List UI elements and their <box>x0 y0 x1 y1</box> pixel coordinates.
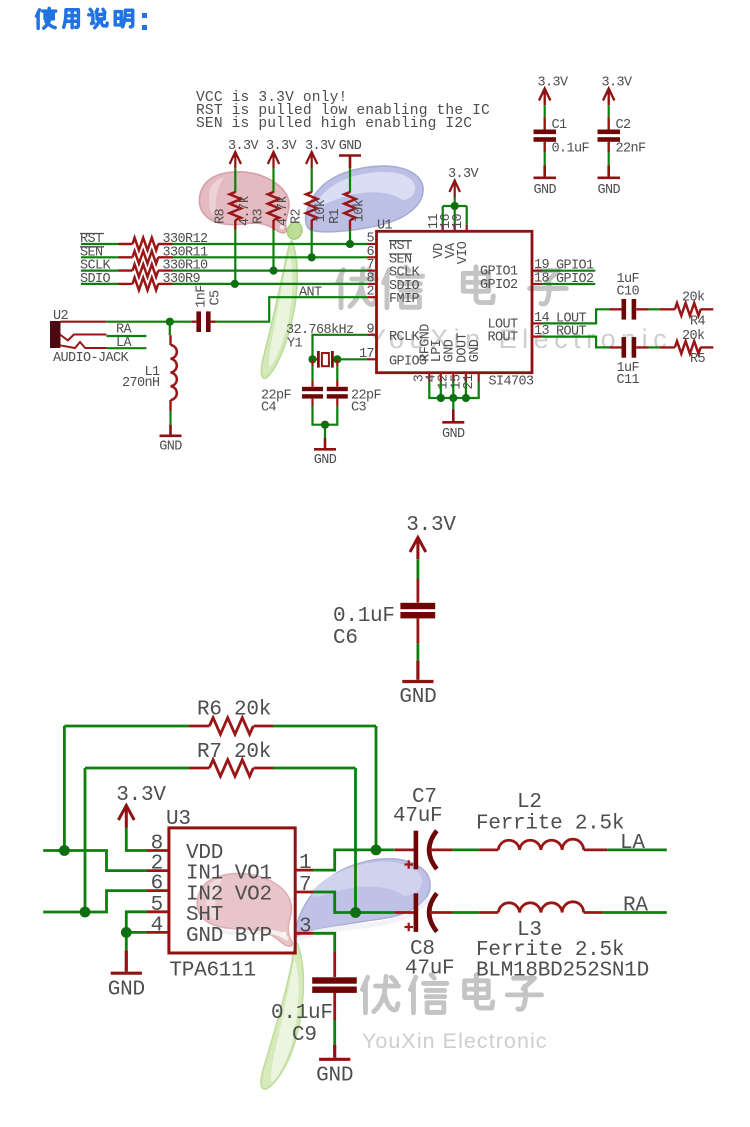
wire 3.3V to VDD <box>126 828 147 851</box>
svg-text:GPIO2: GPIO2 <box>480 278 518 293</box>
svg-text:20k: 20k <box>682 329 705 344</box>
watermark logo top: green sprout <box>261 222 302 378</box>
watermark logo bottom: blue petal <box>295 859 430 941</box>
pin 16 stub <box>454 225 456 232</box>
wire R1 top <box>349 168 351 192</box>
junction SDIO/R8 <box>231 280 239 288</box>
wire down to C4 <box>311 359 313 366</box>
capacitor C1 <box>544 117 546 152</box>
node input lower / R7 <box>80 907 91 918</box>
svg-text:3.3V: 3.3V <box>601 76 633 91</box>
node top pins <box>451 202 459 210</box>
wire R1 bottom <box>349 220 351 230</box>
node crystal right <box>333 355 341 363</box>
wire jack tip to node <box>106 321 169 323</box>
svg-text:GND: GND <box>316 1065 353 1088</box>
wire R3 bottom <box>272 220 274 230</box>
wire C7 to L2 <box>452 849 479 852</box>
wire ROUT <box>542 337 610 348</box>
3.3V arrow U1 <box>449 181 460 198</box>
ground C1 <box>534 165 557 178</box>
node bracket pin15 <box>462 394 470 402</box>
svg-text:L2: L2 <box>517 791 542 814</box>
watermark text top <box>338 267 567 308</box>
svg-text:ANT: ANT <box>299 285 322 300</box>
3.3V arrow C1 <box>539 89 550 106</box>
node bracket pin12 <box>449 394 457 402</box>
svg-text:YouXin Electronic: YouXin Electronic <box>362 1029 548 1053</box>
svg-text:GND: GND <box>339 139 362 154</box>
pin 1 stub <box>295 869 313 872</box>
pin 15 stub bottom <box>465 373 467 382</box>
capacitor C4 22pF <box>302 387 323 391</box>
svg-text:BYP: BYP <box>235 925 272 948</box>
wire L3 to RA <box>603 911 667 914</box>
wire <box>416 618 419 643</box>
pin 8 stub <box>147 849 169 852</box>
svg-text:C9: C9 <box>292 1024 317 1047</box>
junction SEN/R2 <box>308 253 316 261</box>
svg-text:C4: C4 <box>261 401 277 416</box>
node VO2/R7 <box>350 907 361 918</box>
watermark logo bottom: green sprout <box>261 943 303 1089</box>
wire node to C5 <box>170 321 192 323</box>
node crystal left <box>308 355 316 363</box>
watermark logo top: blue petal <box>306 166 423 232</box>
capacitor C11 1uF <box>610 346 649 348</box>
wire R2 bottom <box>311 220 313 230</box>
pin 5 stub <box>147 910 169 913</box>
wire RA jack <box>106 335 146 337</box>
wire GPIO2 <box>542 283 596 285</box>
capacitor C10 1uF <box>610 308 649 310</box>
pin 3 stub <box>295 932 313 935</box>
svg-text:IN1: IN1 <box>186 863 223 886</box>
inductor L1 270nH <box>169 322 171 336</box>
pin 4 stub bottom <box>440 373 442 382</box>
pin 8 stub <box>368 283 377 285</box>
svg-text:10: 10 <box>451 214 466 230</box>
title colon <box>142 13 147 30</box>
3.3V arrow R2 <box>306 152 317 168</box>
page title 使用说明： <box>37 8 133 28</box>
3.3V arrow C2 <box>603 89 614 106</box>
capacitor C8 47uF <box>395 911 415 914</box>
inductor L3 ferrite <box>479 911 603 914</box>
resistor R10 330 <box>119 269 173 271</box>
svg-text:9: 9 <box>366 322 374 337</box>
wire <box>544 152 546 165</box>
junction RST/R1 <box>346 240 354 248</box>
svg-text:GPIO2: GPIO2 <box>556 272 594 287</box>
wire C10 to R4 <box>649 308 660 310</box>
svg-text:47uF: 47uF <box>393 805 442 828</box>
svg-text:C2: C2 <box>616 118 632 133</box>
resistor R8 4.7k <box>230 192 241 220</box>
svg-text:3: 3 <box>299 915 311 938</box>
svg-text:GND: GND <box>159 440 182 455</box>
pin 7 stub <box>368 270 377 272</box>
wire L1 to gnd <box>169 411 171 425</box>
svg-text:SI4703: SI4703 <box>489 375 535 390</box>
svg-text:0.1uF: 0.1uF <box>552 142 590 157</box>
ground L1 <box>160 425 182 436</box>
node input upper / R6 <box>59 845 70 856</box>
ground crystal caps <box>314 438 336 449</box>
watermark logo bottom: red petal <box>197 873 292 946</box>
pin 3 stub bottom <box>428 373 430 382</box>
wire R6 right leg <box>375 726 378 850</box>
svg-text:ROUT: ROUT <box>487 331 518 346</box>
ground C9 <box>319 1045 350 1059</box>
svg-text:6: 6 <box>151 873 163 896</box>
svg-text:21: 21 <box>462 374 477 390</box>
svg-text:1: 1 <box>299 852 311 875</box>
resistor R2 10k <box>306 192 317 220</box>
wire LOUT <box>542 309 610 323</box>
svg-text:R3: R3 <box>252 209 267 225</box>
pin 10 stub <box>466 225 468 232</box>
3.3V arrow R8 <box>230 152 241 168</box>
resistor R3 4.7k <box>268 192 279 220</box>
wire <box>608 152 610 165</box>
pin 4 stub <box>147 931 169 934</box>
wire 3.3V to top pins <box>443 197 467 225</box>
svg-text:VO1: VO1 <box>235 863 272 886</box>
wire caps to gnd bracket <box>313 406 338 438</box>
wire C11 to R5 <box>649 346 660 348</box>
wire RCLK <box>313 335 368 360</box>
node VO1/R6 <box>371 845 382 856</box>
svg-text:10k: 10k <box>314 199 329 222</box>
svg-text:FMIP: FMIP <box>389 292 420 307</box>
pin 6 stub <box>368 256 377 258</box>
svg-text:17: 17 <box>359 347 375 362</box>
capacitor C2 <box>608 117 610 152</box>
svg-text:R6 20k: R6 20k <box>197 699 271 722</box>
3.3V arrow C6 <box>410 538 426 560</box>
svg-text:R1: R1 <box>328 209 343 225</box>
wire SCLK <box>81 270 368 272</box>
pin 7 stub <box>295 891 313 894</box>
svg-text:0.1uF: 0.1uF <box>271 1002 333 1025</box>
svg-text:BLM18BD252SN1D: BLM18BD252SN1D <box>476 960 649 983</box>
pin 5 stub <box>368 243 377 245</box>
resistor R4 20k <box>660 308 714 310</box>
wire input lower <box>43 891 147 912</box>
resistor R5 20k <box>660 346 714 348</box>
svg-text:R4: R4 <box>690 315 706 330</box>
capacitor C9 0.1uF <box>312 977 357 983</box>
wire C5 to FMIP <box>216 297 368 322</box>
3.3V arrow U3 <box>118 806 134 828</box>
svg-text:3.3V: 3.3V <box>266 139 298 154</box>
svg-text:4: 4 <box>151 914 163 937</box>
pin 13 stub <box>532 336 542 338</box>
svg-text:330R9: 330R9 <box>163 272 201 287</box>
node caps gnd <box>321 421 329 429</box>
svg-text:GND: GND <box>442 427 465 442</box>
wire BYP to C9 <box>313 933 335 952</box>
svg-text:3.3V: 3.3V <box>406 514 456 537</box>
wire SEN <box>81 256 368 258</box>
svg-text:LA: LA <box>620 832 645 855</box>
junction SCLK/R3 <box>269 267 277 275</box>
svg-text:SEN is pulled high enabling I2: SEN is pulled high enabling I2C <box>196 116 472 132</box>
svg-text:R8: R8 <box>213 209 228 225</box>
svg-text:2: 2 <box>366 285 374 300</box>
svg-text:GND: GND <box>399 686 436 709</box>
ground C2 <box>598 165 621 178</box>
node SHT/GND <box>121 927 132 938</box>
wire VO1 to C7 <box>313 850 395 870</box>
pin 19 stub <box>532 270 542 272</box>
svg-text:C6: C6 <box>333 627 358 650</box>
svg-text:R7 20k: R7 20k <box>197 741 271 764</box>
node bracket pin4 <box>437 394 445 402</box>
wire R2 top <box>311 168 313 192</box>
svg-text:R5: R5 <box>690 352 706 367</box>
svg-text:ROUT: ROUT <box>556 325 587 340</box>
svg-text:C1: C1 <box>552 118 568 133</box>
svg-text:C10: C10 <box>617 285 640 300</box>
svg-text:SHT: SHT <box>186 904 223 927</box>
pin 11 stub <box>442 225 444 232</box>
pin 6 stub <box>147 889 169 892</box>
node ANT junction <box>166 318 174 326</box>
svg-text:7: 7 <box>299 874 311 897</box>
wire bottom pins bracket <box>429 382 478 399</box>
pin 12 stub bottom <box>452 373 454 382</box>
svg-text:10k: 10k <box>353 199 368 222</box>
pin 21 stub bottom <box>478 373 480 382</box>
ground U3 <box>111 950 142 973</box>
wire R7 right leg <box>354 768 357 913</box>
IC U1 SI4703 body <box>377 231 533 372</box>
wire <box>544 105 546 117</box>
pin 17 stub <box>368 358 377 360</box>
svg-text:GND: GND <box>108 979 145 1002</box>
svg-text:RCLK: RCLK <box>389 330 421 345</box>
svg-text:GND: GND <box>597 183 620 198</box>
resistor R9 330 <box>119 283 173 285</box>
resistor R12 330 <box>119 243 173 245</box>
svg-text:VDD: VDD <box>186 842 223 865</box>
pin 9 stub <box>368 334 377 336</box>
svg-text:3.3V: 3.3V <box>448 167 480 182</box>
svg-text:IN2: IN2 <box>186 883 223 906</box>
svg-text:GND: GND <box>186 925 223 948</box>
wire C9 to gnd <box>333 993 336 1020</box>
wire R3 top <box>272 168 274 192</box>
wire input upper <box>43 851 147 871</box>
svg-text:3.3V: 3.3V <box>116 784 166 807</box>
wire L2 to LA <box>607 849 667 852</box>
svg-text:20k: 20k <box>682 291 705 306</box>
svg-text:Ferrite 2.5k: Ferrite 2.5k <box>476 813 624 836</box>
wire <box>608 105 610 117</box>
svg-text:3.3V: 3.3V <box>228 139 260 154</box>
3.3V arrow R3 <box>268 152 279 168</box>
wire GPIO1 <box>542 270 596 272</box>
svg-text:GND: GND <box>468 339 483 362</box>
svg-text:47uF: 47uF <box>405 958 454 981</box>
ground C6 <box>402 661 433 682</box>
svg-text:0.1uF: 0.1uF <box>333 605 395 628</box>
wire down to C3 <box>336 359 338 366</box>
svg-text:1nF: 1nF <box>194 285 209 308</box>
pin 2 stub <box>147 869 169 872</box>
resistor R1 10k <box>344 192 355 220</box>
svg-text:C5: C5 <box>209 290 224 306</box>
watermark logo top: red petal <box>199 172 289 233</box>
svg-text:3.3V: 3.3V <box>537 76 569 91</box>
svg-text:C11: C11 <box>617 373 640 388</box>
svg-text:VO2: VO2 <box>235 883 272 906</box>
capacitor C3 22pF <box>327 387 348 391</box>
svg-text:R2: R2 <box>290 209 305 225</box>
svg-text:GND: GND <box>533 183 556 198</box>
svg-text:GND: GND <box>314 453 337 468</box>
wire R6 left leg <box>63 726 66 851</box>
wire LA jack <box>106 347 146 349</box>
pin 14 stub <box>532 322 542 324</box>
svg-text:3.3V: 3.3V <box>305 139 337 154</box>
wire <box>416 559 419 579</box>
svg-text:C3: C3 <box>351 401 367 416</box>
pin 2 stub <box>368 296 377 298</box>
wire SDIO <box>81 283 368 285</box>
capacitor C5 1nF <box>191 321 215 323</box>
capacitor C6 0.1uF <box>400 603 435 609</box>
svg-text:5: 5 <box>151 894 163 917</box>
svg-text:22nF: 22nF <box>616 142 647 157</box>
ground U1 <box>452 398 454 410</box>
wire R8 bottom <box>234 220 236 230</box>
wire SHT to GND net <box>126 912 147 951</box>
wire C8 to L3 <box>452 911 479 914</box>
wire VO2 to C8 <box>313 892 395 913</box>
svg-text:Y1: Y1 <box>287 337 303 352</box>
svg-text:RA: RA <box>623 895 648 918</box>
wire R8 top <box>234 168 236 192</box>
wire RST <box>81 243 368 245</box>
wire R7 left leg <box>84 768 87 912</box>
wire crystal to GPIO3 <box>337 358 367 360</box>
resistor R11 330 <box>119 256 173 258</box>
svg-text:VIO: VIO <box>456 241 471 264</box>
svg-text:TPA6111: TPA6111 <box>169 960 255 983</box>
svg-text:AUDIO-JACK: AUDIO-JACK <box>53 351 130 366</box>
pin 18 stub <box>532 283 542 285</box>
watermark text bottom <box>362 975 541 1013</box>
svg-text:270nH: 270nH <box>122 376 160 391</box>
